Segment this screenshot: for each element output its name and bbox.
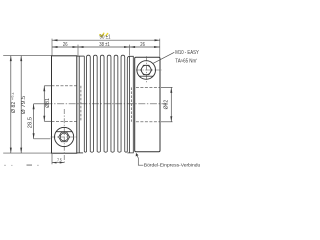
svg-text:Ø 79.5: Ø 79.5 xyxy=(21,95,27,114)
left clamp screw M10 : center lines xyxy=(51,109,78,164)
svg-text:Ø 82 ⁺⁰·¹: Ø 82 ⁺⁰·¹ xyxy=(11,92,17,113)
dimension chain line 26 / 38±1 / 26 xyxy=(52,46,160,48)
right clamp screw M10 : center lines xyxy=(136,56,162,83)
dimension Ø62 right side xyxy=(161,87,173,121)
left flare flat top xyxy=(77,56,85,153)
arrowheads 90 dim xyxy=(52,39,160,41)
right clamp screw hex socket xyxy=(141,65,152,75)
left hub hidden bore lines xyxy=(52,86,77,122)
svg-text:Ø81: Ø81 xyxy=(45,98,51,108)
right hub hidden bore lines xyxy=(136,87,160,121)
faint artifact marks bottom left xyxy=(4,164,39,166)
yellow highlight on 90 xyxy=(99,33,104,37)
leader Bördel-Einpress-Verbindung xyxy=(137,155,144,165)
dimension Ø79.5 vertical line xyxy=(20,56,22,154)
left hub body xyxy=(52,56,77,153)
right clamp screw chord (counterbore) xyxy=(139,75,153,77)
left flare hidden line xyxy=(80,86,82,122)
svg-text:7.5: 7.5 xyxy=(57,157,62,162)
svg-text:M10 - EASY: M10 - EASY xyxy=(175,50,199,56)
right collar inner line xyxy=(129,56,131,153)
svg-text:TA≈65 Nmʹ: TA≈65 Nmʹ xyxy=(175,57,197,64)
dimension Ø82 +0.1 vertical line far left xyxy=(10,56,12,154)
extension lines top dims xyxy=(52,39,160,57)
dimension 28.5 vertical line xyxy=(34,104,51,139)
right clamp screw outer circle xyxy=(137,61,156,80)
dimension Ø81 vertical line xyxy=(44,86,52,122)
svg-text:26: 26 xyxy=(63,42,68,48)
svg-text:Ø62: Ø62 xyxy=(163,100,169,110)
leader M10 EASY to right screw xyxy=(153,52,174,63)
extension lines hub OD to left dims xyxy=(3,56,51,154)
left clamp screw inner circle xyxy=(60,133,68,141)
left collar band xyxy=(78,56,80,153)
svg-text:26: 26 xyxy=(140,42,145,48)
svg-text:90 ±1: 90 ±1 xyxy=(100,35,111,41)
main axis center line xyxy=(46,103,167,105)
right collar hidden line xyxy=(130,87,132,121)
left clamp screw hex socket xyxy=(59,132,70,142)
svg-text:Bördel-Einpress-Verbindung: Bördel-Einpress-Verbindung xyxy=(144,163,200,169)
svg-text:28.5: 28.5 xyxy=(27,117,33,128)
bellows convolutions xyxy=(84,55,133,153)
svg-text:38 ±1: 38 ±1 xyxy=(99,42,110,48)
left clamp screw chord (counterbore) xyxy=(56,131,72,133)
dimension 7.5 below left hub xyxy=(52,154,64,164)
right clamp screw inner circle xyxy=(141,65,151,75)
dimension 90 ±1 top xyxy=(52,39,160,41)
left clamp screw outer circle xyxy=(55,127,74,146)
right hub body xyxy=(135,57,160,151)
arrowheads chain dim xyxy=(52,46,160,48)
